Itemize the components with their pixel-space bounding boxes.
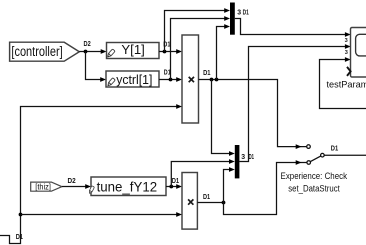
wire yctrl output to product P1 in2 [159, 77, 182, 82]
wire Y1 branch to mux M1 in1 [165, 8, 231, 51]
product P1 [182, 35, 199, 123]
svg-text:3: 3 [345, 50, 348, 56]
svg-text:[thiz]: [thiz] [35, 182, 51, 191]
svg-text:D2: D2 [68, 178, 76, 185]
wire switch output [324, 154, 366, 156]
svg-text:D1: D1 [331, 146, 339, 153]
wire feedback branch to P2 in2 [21, 212, 183, 217]
wire mux M1 output to subsystem in1 [235, 19, 351, 37]
wire P2 branch to switch lower input [224, 160, 307, 214]
svg-text:testParameter: testParameter [327, 79, 366, 89]
wire yctrl branch to mux M1 in2 [171, 16, 231, 79]
svg-text:D2: D2 [84, 41, 91, 48]
wire P2 output [197, 202, 223, 204]
node yctrl D1 junction [169, 78, 173, 82]
svg-text:yctrl[1]: yctrl[1] [116, 72, 152, 87]
wire thiz to tune block [62, 184, 91, 189]
block tune_fY12 signal editor [88, 177, 166, 196]
wire mux M2 output to subsystem in2 [239, 44, 350, 161]
svg-text:Y[1]: Y[1] [121, 42, 144, 57]
wire P2 branch up to mux M2 in3 [224, 167, 235, 202]
node feedback junction [19, 213, 23, 217]
wire controller to Y1 [79, 49, 106, 54]
svg-text:D1: D1 [164, 70, 171, 77]
wire P1 branch down to mux M2 in1 [212, 80, 235, 156]
node Y1 D1 junction [163, 50, 167, 54]
svg-text:D1: D1 [243, 10, 249, 17]
wire controller branch to yctrl [86, 52, 107, 82]
node P2 junction [222, 201, 226, 205]
node P1 junction B [215, 78, 219, 82]
svg-text:D1: D1 [249, 154, 255, 161]
svg-text:D1: D1 [16, 234, 23, 241]
from tag CONTROLLER [10, 42, 80, 61]
svg-text:tune_fY12: tune_fY12 [97, 179, 158, 195]
node tune D1 junction [169, 185, 173, 189]
wire P1 branch up to mux M1 in3 [217, 24, 231, 79]
svg-text:D1: D1 [203, 194, 210, 201]
svg-text:Experience: Check: Experience: Check [281, 171, 348, 181]
wire feedback from left edge to P1 in3 [0, 104, 182, 243]
svg-text:3: 3 [237, 10, 241, 17]
block Y[1] signal editor [106, 42, 159, 59]
mux M2 [235, 145, 240, 178]
svg-text:[controller]: [controller] [11, 44, 62, 59]
svg-text:D1: D1 [203, 70, 211, 77]
subsystem U1 testParameter [327, 28, 366, 90]
svg-text:3: 3 [345, 38, 348, 44]
wire Y1 output to product P1 in1 [159, 49, 182, 54]
wire tune branch to mux M2 in2 [171, 159, 235, 186]
product P2 [182, 173, 197, 230]
svg-text:set_DataStruct: set_DataStruct [288, 183, 340, 193]
node P1 junction A [210, 78, 214, 82]
annotation Experience [281, 171, 348, 194]
switch SW1 manual switch [307, 145, 325, 165]
wire P1 output to switch upper input [199, 80, 307, 150]
wire loop from right edge to subsystem in3 [320, 57, 366, 108]
mux M1 [230, 3, 235, 35]
block yctrl[1] signal editor [106, 71, 159, 87]
from tag THIZ [31, 182, 62, 191]
svg-text:D1: D1 [172, 178, 180, 185]
wire tune output to product P2 in1 [166, 184, 182, 189]
unconnected port chevron subsystem in4 [347, 67, 351, 76]
svg-text:3: 3 [241, 154, 245, 161]
node D2 junction [84, 50, 88, 54]
